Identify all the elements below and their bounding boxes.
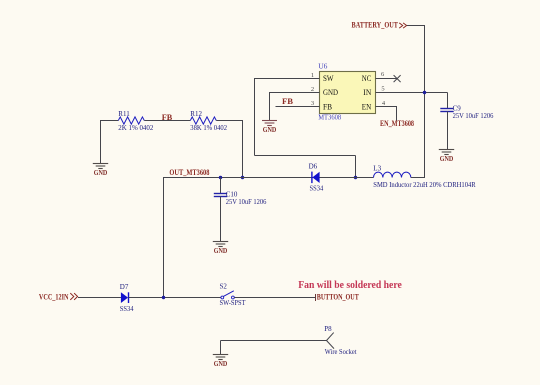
svg-text:Fan will be soldered here: Fan will be soldered here bbox=[298, 280, 402, 291]
capacitor C9 bbox=[440, 109, 453, 112]
wire BATTERY_OUT vertical down to inductor bbox=[424, 26, 426, 178]
net label BATTERY_OUT bbox=[352, 21, 407, 30]
svg-text:SW: SW bbox=[323, 73, 334, 83]
svg-text:NC: NC bbox=[362, 73, 372, 83]
svg-text:GND: GND bbox=[214, 247, 228, 255]
wire pin2 GND drop bbox=[269, 92, 271, 121]
svg-text:EN_MT3608: EN_MT3608 bbox=[380, 119, 414, 128]
svg-text:U6: U6 bbox=[318, 62, 327, 71]
svg-text:BUTTON_OUT: BUTTON_OUT bbox=[317, 292, 360, 301]
svg-text:SS34: SS34 bbox=[120, 305, 134, 313]
ground symbol at bottom bbox=[213, 355, 228, 369]
svg-text:GND: GND bbox=[440, 155, 454, 163]
svg-text:IN: IN bbox=[363, 87, 371, 97]
wire right lead of R12 bbox=[216, 120, 242, 122]
wire FB divider left corner down to ground bbox=[100, 120, 102, 164]
svg-text:SS34: SS34 bbox=[310, 185, 324, 193]
diode D6 bbox=[312, 172, 320, 184]
junction IN / battery wire bbox=[423, 91, 426, 94]
capacitor C10 bbox=[214, 194, 227, 197]
wire pin1 SW to left bbox=[255, 78, 320, 80]
connector P8 wire socket fork bbox=[327, 333, 335, 349]
no-connect X on NC bbox=[394, 75, 401, 82]
wire SW vertical bbox=[254, 78, 256, 156]
svg-text:3: 3 bbox=[311, 100, 314, 107]
wire between R11 and R12 bbox=[144, 120, 190, 122]
wire SW horizontal jog bbox=[255, 155, 356, 157]
wire bottom ground stem bbox=[220, 341, 222, 355]
svg-text:FB: FB bbox=[323, 102, 332, 112]
ground symbol at C9 bbox=[439, 150, 454, 164]
svg-text:EN: EN bbox=[362, 102, 372, 112]
junction R12/OUT row bbox=[241, 176, 244, 179]
svg-text:25V 10uF 1206: 25V 10uF 1206 bbox=[453, 112, 494, 120]
svg-text:2K 1% 0402: 2K 1% 0402 bbox=[118, 124, 153, 132]
wire R12 drop to OUT row bbox=[242, 120, 244, 178]
svg-text:D6: D6 bbox=[309, 162, 318, 170]
op-amp U1 chip body U6 bbox=[320, 72, 376, 114]
ground symbol at U6 pin2 bbox=[262, 121, 277, 135]
svg-text:R12: R12 bbox=[190, 110, 202, 118]
svg-text:1: 1 bbox=[311, 72, 314, 79]
svg-text:SMD Inductor 22uH 20% CDRH104R: SMD Inductor 22uH 20% CDRH104R bbox=[373, 181, 476, 189]
svg-text:S2: S2 bbox=[220, 282, 228, 290]
svg-text:GND: GND bbox=[323, 87, 338, 97]
ground symbol at C10 bbox=[213, 242, 228, 256]
wire pin5 IN to right bbox=[376, 92, 448, 94]
wire OUT row drop to VCC row bbox=[163, 177, 165, 298]
net label VCC_12IN bbox=[39, 292, 78, 301]
svg-text:OUT_MT3608: OUT_MT3608 bbox=[169, 168, 209, 177]
switch S2 bbox=[221, 291, 234, 299]
svg-text:MT3608: MT3608 bbox=[318, 112, 341, 121]
wire left lead of R11 bbox=[101, 120, 119, 122]
wire pin2 GND to left bbox=[270, 92, 320, 94]
svg-text:L3: L3 bbox=[373, 164, 381, 172]
svg-text:38K 1% 0402: 38K 1% 0402 bbox=[190, 124, 227, 132]
wire SW drop to OUT row bbox=[355, 156, 357, 178]
svg-text:25V 10uF 1206: 25V 10uF 1206 bbox=[226, 198, 267, 206]
wire VCC_12IN to D7 bbox=[78, 297, 121, 299]
svg-text:5: 5 bbox=[381, 86, 384, 93]
wire bottom ground to P8 bbox=[221, 340, 327, 342]
resistor R12 bbox=[190, 117, 216, 124]
wire D7 to S2 bbox=[129, 297, 221, 299]
ground symbol at R11 bbox=[93, 164, 108, 178]
wire C9 drop bbox=[447, 93, 449, 109]
svg-text:D7: D7 bbox=[120, 283, 129, 291]
net label BUTTON_OUT with tick bbox=[316, 292, 360, 301]
wire BATTERY_OUT horizontal lead bbox=[407, 25, 425, 27]
wire C9 to ground bbox=[447, 112, 449, 150]
svg-text:SW-SPST: SW-SPST bbox=[220, 299, 247, 307]
svg-text:VCC_12IN: VCC_12IN bbox=[39, 292, 69, 301]
svg-text:Wire Socket: Wire Socket bbox=[325, 348, 357, 356]
svg-text:GND: GND bbox=[263, 126, 277, 134]
diode D7 bbox=[121, 292, 129, 303]
wire C10 drop bbox=[220, 178, 222, 194]
wire S2 to BUTTON_OUT bbox=[234, 297, 315, 299]
junction OUT drop / VCC row bbox=[162, 296, 165, 299]
svg-text:R11: R11 bbox=[118, 110, 130, 118]
svg-text:BATTERY_OUT: BATTERY_OUT bbox=[352, 21, 399, 30]
wire EN drop bbox=[396, 106, 398, 121]
junction C10/OUT row bbox=[219, 176, 222, 179]
svg-text:P8: P8 bbox=[324, 325, 332, 333]
svg-text:GND: GND bbox=[94, 169, 108, 177]
wire pin6 NC stub bbox=[376, 78, 397, 80]
svg-text:FB: FB bbox=[282, 97, 294, 106]
wire C10 to ground bbox=[220, 197, 222, 242]
svg-text:GND: GND bbox=[214, 360, 228, 368]
svg-text:FB: FB bbox=[162, 113, 173, 122]
wire pin4 EN stub bbox=[376, 106, 397, 108]
junction SW/OUT row bbox=[354, 176, 357, 179]
resistor R11 bbox=[118, 117, 144, 124]
wire OUT row horizontal bbox=[164, 177, 374, 179]
wire L3 right lead bbox=[411, 177, 425, 179]
inductor L3 bbox=[374, 172, 411, 177]
svg-text:2: 2 bbox=[311, 86, 314, 93]
wire pin3 FB stub bbox=[276, 106, 320, 108]
